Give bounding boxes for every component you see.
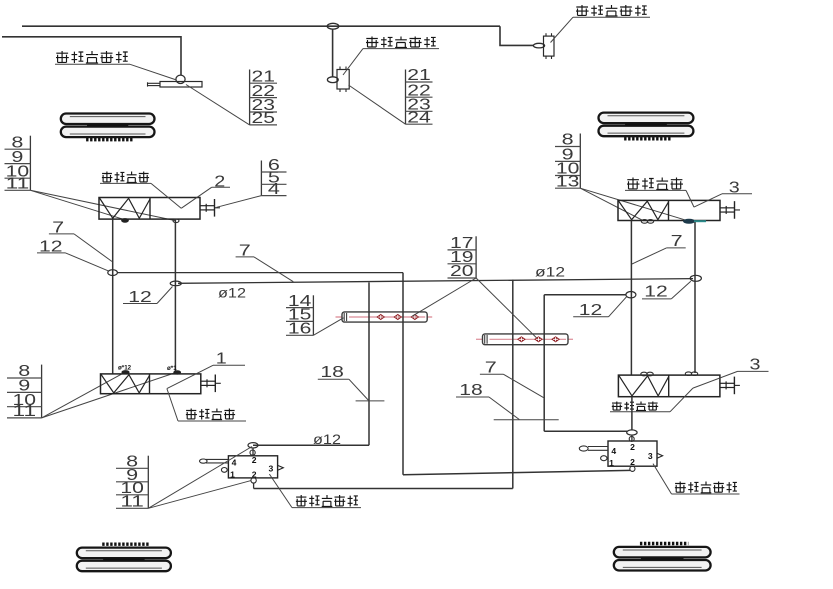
tie rod left (14/15/16)	[336, 312, 433, 322]
pipe: x544 to parking valve top	[544, 430, 627, 432]
axle differential lock component	[148, 75, 203, 87]
callout 18 right with tick	[456, 382, 559, 420]
leader: column to bottom-left chamber	[42, 372, 177, 418]
service valve port 3 arrow	[278, 466, 283, 471]
label brake chamber (zhi dong qi shi) top-left	[102, 172, 149, 183]
parts list column 8/9/10/11 I valve	[116, 454, 148, 511]
svg-text:2: 2	[252, 455, 257, 465]
label brake chamber bottom-left	[186, 409, 235, 420]
parts list column 14/15/16 F	[286, 293, 313, 338]
leader: parking valve label	[653, 464, 740, 494]
leader: 17/19/20 to both tie rods	[412, 278, 537, 338]
svg-text:18: 18	[459, 382, 483, 399]
svg-text:20: 20	[450, 263, 474, 280]
wheel differential lock 1 component	[327, 67, 349, 93]
svg-text:4: 4	[232, 458, 237, 468]
node on right outer pipe	[690, 275, 701, 281]
ports bottom of chamber 3 top-right	[641, 219, 706, 223]
callout 7 right top	[632, 233, 686, 264]
node on right inner pipe	[626, 292, 636, 298]
pipe: left inner vertical	[112, 219, 114, 374]
pipe: corner to service relay valve top	[253, 444, 369, 446]
service valve port 2 bottom fitting	[251, 478, 256, 489]
svg-text:24: 24	[407, 109, 431, 126]
parking valve port 2 top fitting	[627, 430, 637, 442]
callout 7 (left pipe)	[49, 220, 112, 262]
callout 12 right-outer	[642, 281, 691, 300]
parking valve port 2 bottom fitting	[630, 466, 635, 471]
label service relay valve (xing che ji dong fa)	[296, 495, 358, 507]
leader: wheel lock 1 to column 21-24	[349, 85, 406, 124]
pipe: vertical x512	[512, 280, 514, 489]
tire rear right	[614, 544, 711, 571]
svg-text:3: 3	[269, 464, 274, 474]
label axle diff lock (zhou cha cha su suo)	[56, 51, 128, 63]
leader: column 6/5/4 to clevis	[217, 196, 262, 208]
wire: second top line to axle lock	[2, 37, 181, 75]
node: tee on top line	[327, 23, 339, 29]
pipe: service valve bottom line	[254, 488, 513, 490]
svg-text:ø*1: ø*1	[167, 365, 177, 372]
wire: center drop to wheel lock 1	[332, 29, 334, 77]
callout 7 (center line)	[236, 242, 294, 281]
leader: wheel lock 2 label	[551, 17, 651, 42]
svg-text:18: 18	[320, 364, 344, 381]
leader: column 8-11 to top-left chamber ports	[30, 190, 175, 220]
tire front right	[599, 113, 694, 139]
parts list column 6/5/4 D	[261, 157, 286, 198]
svg-text:1: 1	[609, 458, 614, 468]
parking relay valve body	[608, 441, 657, 468]
svg-text:11: 11	[120, 494, 144, 511]
service valve port 4 stub	[200, 459, 229, 463]
label wheel diff lock (lun cha cha su suo)	[366, 37, 436, 48]
pipe: vertical x403	[402, 273, 404, 475]
service valve port 1	[221, 468, 227, 473]
parts list column 8/9/10/13 E	[555, 132, 580, 191]
pipe: vertical x369	[368, 282, 370, 445]
svg-text:3: 3	[648, 451, 653, 461]
pipe: bottom-right chamber to parking valve	[631, 397, 633, 430]
tire front left	[61, 114, 155, 140]
brake chamber 3 (top-right): body	[618, 200, 740, 220]
svg-text:ø*12: ø*12	[118, 365, 132, 372]
brake chamber 1 (bottom-left): body	[101, 374, 221, 394]
svg-text:11: 11	[13, 403, 37, 420]
parts list column 8/9/10/11 H bottom-left	[7, 363, 42, 420]
pipe: x403 to parking valve bottom	[403, 470, 630, 474]
callout 1	[167, 351, 245, 389]
parts list column 8/9/10/11 C top-left	[5, 134, 31, 192]
wire: corner drop to right wheel lock	[500, 26, 534, 45]
service valve port 2 top fitting	[248, 443, 258, 456]
parts list column 21/22/23/24 B	[406, 67, 433, 126]
parking valve port 4 stub	[579, 446, 608, 451]
callout 7 right-mid	[480, 360, 544, 398]
svg-text:ø12: ø12	[535, 263, 565, 279]
ports on top of chamber 1	[118, 365, 181, 375]
service relay valve body	[228, 455, 277, 480]
pipe: vertical x544	[543, 295, 545, 431]
leader V: chamber 3 labels	[625, 190, 752, 207]
leader: bottom-left chamber label	[167, 389, 246, 421]
svg-text:25: 25	[252, 110, 276, 127]
parts list column 17/19/20 G	[448, 235, 477, 280]
node 12 on second pipe	[170, 281, 181, 286]
tire rear left	[77, 544, 171, 571]
label brake chamber bottom-right	[612, 402, 658, 411]
leader: 14/15/16 to tie rod	[313, 318, 343, 336]
leader: wheel lock 1 label	[343, 49, 439, 75]
label parking relay valve (zhu che ji dong fa)	[675, 482, 737, 493]
callout 12 right-inner	[573, 297, 626, 319]
svg-text:12: 12	[579, 302, 603, 319]
callout 18 left with tick	[318, 364, 385, 401]
callout 12 (second node)	[123, 287, 173, 307]
leader: service valve label	[269, 474, 361, 508]
svg-text:ø12: ø12	[218, 285, 246, 301]
parking valve port 1	[601, 456, 607, 461]
brake chamber 2 (top-left): body	[99, 198, 220, 220]
leader V: chamber 2 labels	[100, 183, 230, 208]
pipe: left outer vertical	[174, 219, 176, 374]
svg-text:12: 12	[644, 284, 668, 301]
pipe: right inner vertical	[630, 221, 632, 376]
svg-text:1: 1	[230, 469, 235, 479]
ports at bottom of chamber 2	[122, 219, 179, 223]
ports top of bottom-right chamber	[641, 372, 698, 376]
leader: column to service valve	[148, 447, 252, 509]
parking valve port 3 arrow	[657, 453, 663, 458]
brake chamber 3 (bottom-right): body	[618, 375, 740, 397]
leader: axle lock to column 21-25	[186, 85, 250, 125]
svg-text:3: 3	[750, 357, 761, 374]
callout 12 (left node)	[37, 238, 109, 271]
node 12 on left pipe	[108, 270, 118, 276]
svg-text:4: 4	[268, 181, 281, 198]
label wheel diff lock right (lun cha cha su suo)	[576, 5, 647, 16]
leader: column 8-13 to top-right chamber	[580, 188, 688, 221]
pipe: line B to node on right inner pipe	[544, 294, 626, 296]
leader: axle lock label	[55, 64, 177, 80]
svg-text:2: 2	[630, 442, 635, 452]
svg-text:3: 3	[729, 179, 740, 196]
pipe: right outer vertical	[694, 222, 696, 373]
leader V: bottom-right chamber labels	[610, 371, 769, 411]
parts list column 21/22/23/25 A	[250, 68, 277, 127]
svg-text:11: 11	[6, 176, 30, 193]
wire: line from node 1 to vertical x403	[117, 272, 403, 274]
svg-text:13: 13	[556, 173, 580, 190]
svg-text:4: 4	[611, 446, 616, 456]
wire: main top supply line	[22, 25, 500, 27]
label brake chamber top-right	[627, 178, 683, 190]
svg-text:16: 16	[288, 321, 312, 338]
tie rod right (17/19/20)	[476, 334, 573, 345]
svg-text:ø12: ø12	[313, 431, 341, 447]
wire: line from node 2 across to right assembly	[178, 279, 693, 284]
wheel differential lock 2 component	[533, 33, 554, 59]
svg-text:7: 7	[671, 233, 683, 250]
svg-text:2: 2	[214, 173, 225, 190]
svg-text:2: 2	[630, 457, 635, 467]
